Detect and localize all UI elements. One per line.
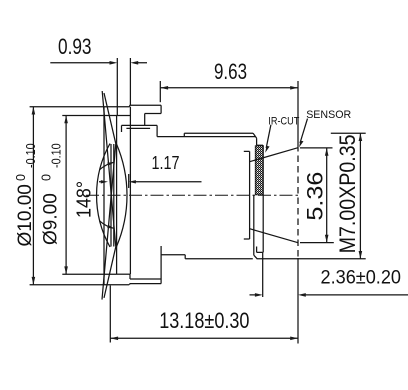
dim 1.17 ext stub (128, 174, 130, 188)
dim 13.18 extension line (109, 286, 111, 343)
retainer pocket bottom (117, 273, 130, 275)
svg-text:1.17: 1.17 (152, 153, 180, 173)
svg-text:148°: 148° (74, 181, 96, 218)
svg-text:IR-CUT: IR-CUT (268, 116, 299, 128)
image cone to sensor top (250, 148, 298, 162)
dim 2.36 extension line (262, 252, 264, 297)
svg-text:0: 0 (13, 174, 28, 181)
dim 5.36 extension lines (300, 148, 334, 243)
svg-text:9.63: 9.63 (214, 59, 247, 84)
cap rear face lower (160, 246, 162, 284)
dim M7 extension lines (257, 133, 366, 259)
filter right face (262, 145, 264, 252)
cap top surface and dia10 top extension (30, 105, 162, 106)
dim 0.93 line (50, 62, 147, 64)
barrel thread OD line bottom (185, 255, 253, 259)
lens rear concave surface (117, 144, 128, 247)
dim dia10 line (32, 107, 34, 285)
dim dia10 arrows (32, 107, 36, 285)
dim M7 line (359, 133, 361, 259)
dim 2.36 line (250, 294, 408, 296)
dim dia9 arrows (64, 116, 68, 275)
dim 9.63 arrows (160, 86, 298, 90)
svg-text:5.36: 5.36 (303, 172, 328, 221)
dim 2.36 arrows (255, 293, 306, 297)
svg-text:Ø9.00: Ø9.00 (41, 193, 62, 245)
cap bottom surface and dia10 bottom extension (30, 284, 162, 285)
barrel rear top chamfer (253, 133, 263, 145)
barrel thread OD line top (184, 133, 253, 136)
label SENSOR leader (300, 119, 308, 143)
dim 0.93 arrows (110, 61, 139, 65)
dim 5.36 line (326, 148, 328, 243)
svg-text:0.93: 0.93 (58, 34, 92, 59)
dim 1.17 line (99, 181, 202, 183)
svg-text:0: 0 (39, 174, 54, 181)
dim M7 arrows (359, 133, 363, 259)
svg-text:M7.00XP0.35: M7.00XP0.35 (335, 134, 360, 253)
dim 0.93 extension lines (117, 58, 130, 116)
centerline axis (86, 194, 300, 196)
dim 9.63 extension line (159, 81, 161, 102)
barrel rear bottom chamfer (254, 247, 263, 259)
image cone to sensor bottom (250, 229, 298, 243)
dim 1.17 arrows (101, 180, 136, 183)
lens element edges (111, 144, 114, 247)
label IR-CUT leader (266, 125, 271, 148)
inner bore edge (116, 116, 118, 275)
FOV ray lower (102, 91, 116, 298)
svg-text:-0.10: -0.10 (49, 143, 64, 168)
dim dia9 line (65, 116, 67, 275)
front lens element convex surface (97, 144, 110, 248)
dim 148 arc upper stub (100, 162, 114, 170)
svg-text:2.36±0.20: 2.36±0.20 (321, 268, 402, 289)
rear bore edge (244, 151, 250, 239)
dim 13.18 arrows (110, 337, 298, 341)
dim dia9 extension lines (62, 116, 117, 275)
filter lower outline (253, 195, 255, 255)
dim 5.36 arrows (325, 148, 329, 243)
dim 9.63 line (160, 87, 298, 89)
barrel thread minor line top (157, 136, 255, 138)
svg-text:Ø10.00: Ø10.00 (15, 184, 36, 246)
retainer pocket top (117, 107, 130, 275)
sensor plane line (297, 81, 299, 145)
dim 148 arrows (107, 162, 114, 228)
internal edge lines top (122, 125, 158, 132)
svg-text:-0.10: -0.10 (23, 143, 38, 168)
FOV ray upper (102, 93, 116, 300)
lens barrel front face (103, 107, 105, 285)
barrel thread minor line bottom (161, 254, 185, 256)
dim 148 arc lower stub (100, 221, 114, 229)
cap bottom tray (130, 274, 161, 279)
svg-text:SENSOR: SENSOR (306, 109, 351, 121)
IR-cut filter hatched upper half (255, 146, 263, 195)
dim 13.18 line (110, 337, 298, 339)
svg-text:13.18±0.30: 13.18±0.30 (159, 308, 249, 333)
cap top rear steps (145, 105, 161, 136)
